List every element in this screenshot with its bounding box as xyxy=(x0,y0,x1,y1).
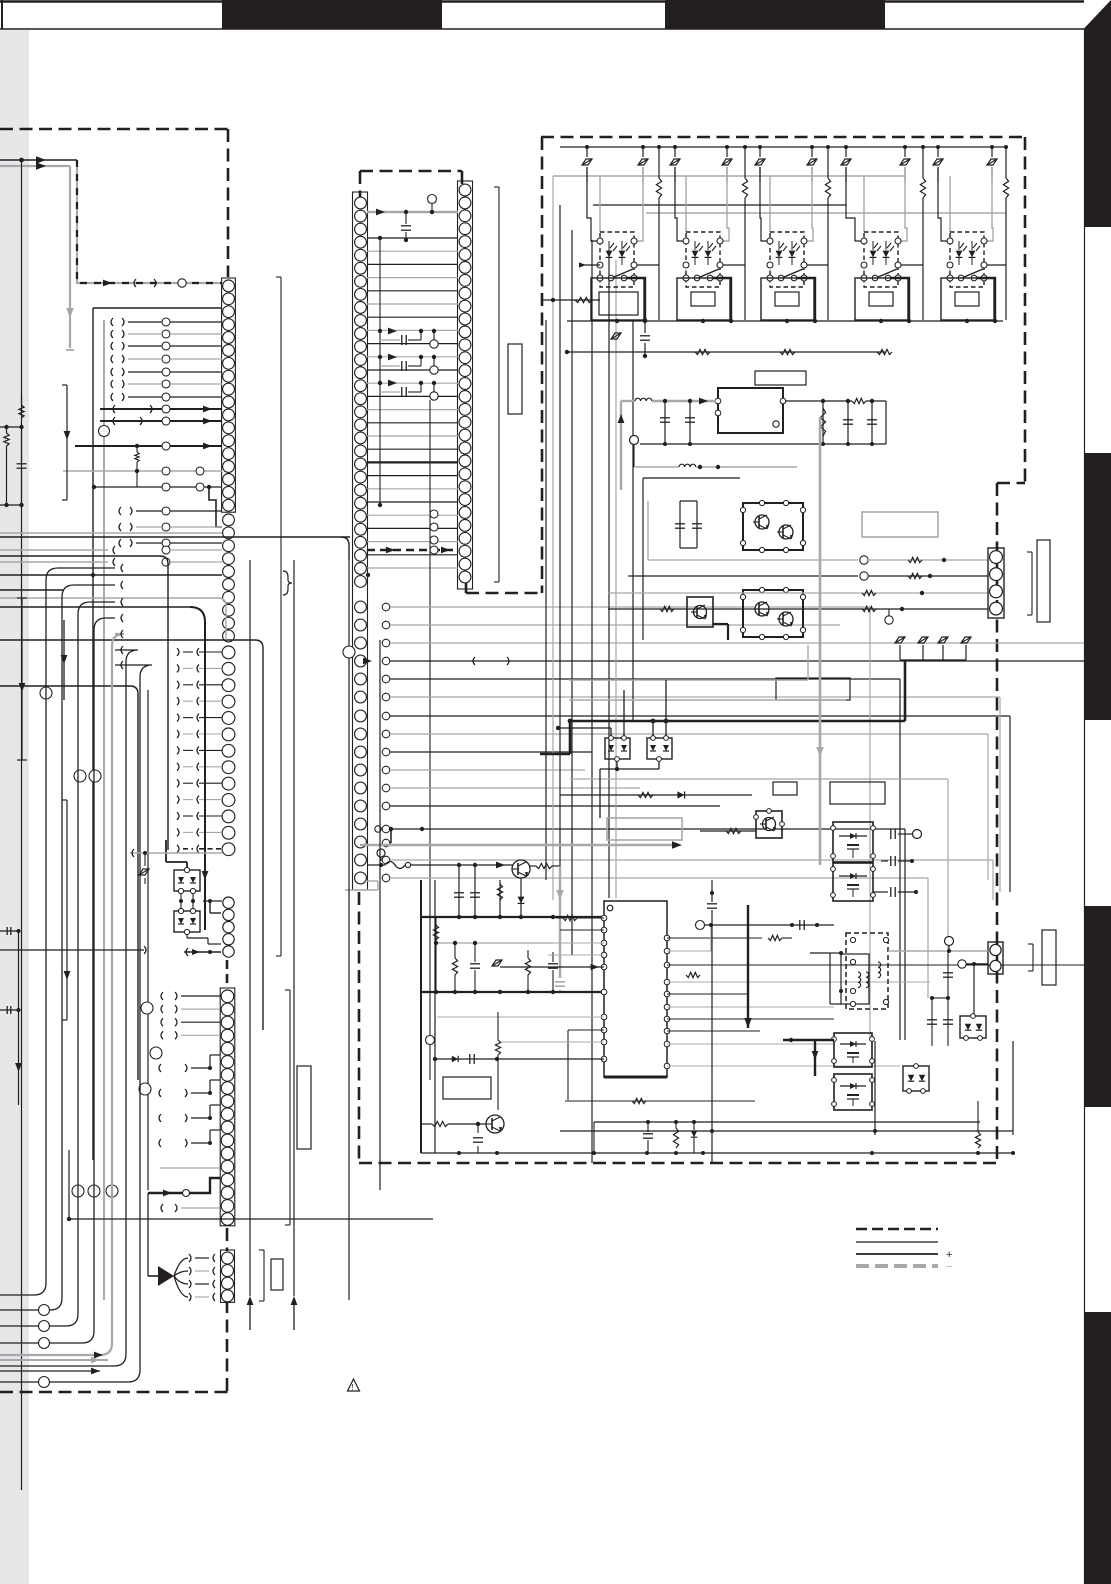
vertical drop to CN205 xyxy=(147,1193,149,1276)
right vertical rails xyxy=(874,1041,876,1135)
connector CN203 xyxy=(223,897,234,908)
label box small xyxy=(773,782,797,795)
fanout to CN205 xyxy=(148,1275,158,1277)
supply caps xyxy=(458,865,460,917)
mid vertical wires xyxy=(147,690,149,1190)
label box gray xyxy=(607,818,682,840)
junction row xyxy=(4,425,8,429)
IC601 right wires xyxy=(667,937,762,939)
jack wire y950 xyxy=(0,949,144,951)
wires at D101 D102 xyxy=(180,893,182,909)
relay switch S202 xyxy=(683,275,689,281)
label box for CN204 xyxy=(297,1066,311,1149)
voltage regulator IC501 xyxy=(718,388,783,433)
photocoupler IC203 xyxy=(770,232,804,287)
right board dashed outline xyxy=(541,136,1025,139)
base resistor xyxy=(700,830,756,832)
ribbon dashed outline xyxy=(360,170,462,173)
connector CN301 column A lower circles xyxy=(355,601,367,613)
transistor block Q601 xyxy=(756,811,782,838)
ribbon branch rows with capacitors xyxy=(388,328,397,335)
caps right column xyxy=(931,998,933,1046)
label box for CN205 xyxy=(271,1259,283,1290)
brace mark mid strip xyxy=(283,571,292,595)
CN204 bottom rows xyxy=(161,1204,163,1212)
bracket left 1 xyxy=(66,385,68,500)
resistors R-top xyxy=(658,147,660,178)
label box model xyxy=(862,512,938,537)
label box CN601 xyxy=(1042,930,1056,985)
label box IC501 xyxy=(755,371,806,385)
ribbon dashed signal wire xyxy=(367,549,458,551)
dashed gray net wire xyxy=(77,160,222,283)
capacitor C202 xyxy=(644,320,646,333)
relay block lower bus xyxy=(567,320,1003,322)
branch wires CN204 xyxy=(159,1064,161,1072)
long verticals xyxy=(420,880,422,1153)
jack rows into CN202 upper xyxy=(119,507,121,515)
wire drops into bottom board xyxy=(869,607,871,1040)
left resistor R201 xyxy=(541,299,600,301)
bottom board dashed outline xyxy=(359,1162,997,1165)
bundle arrows xyxy=(247,1296,254,1305)
top connector pins xyxy=(582,159,592,165)
bracket CN501 xyxy=(1031,552,1033,615)
diode array output wires xyxy=(616,761,618,769)
dashed link CN203-CN204 xyxy=(226,960,229,986)
relay switch S203 xyxy=(767,275,773,281)
bracket for CN205 xyxy=(263,1250,265,1301)
IC601 right pins xyxy=(664,935,670,941)
via circles row 1191 xyxy=(72,1185,84,1197)
svg-text:−: − xyxy=(946,1261,952,1273)
header black block 1 xyxy=(222,0,442,29)
label box bottom left xyxy=(443,1077,491,1099)
gray rail upper xyxy=(553,175,905,177)
header band border xyxy=(0,0,1084,3)
bracket for CN302 xyxy=(498,187,500,582)
arrow rows into CN201 xyxy=(100,408,222,410)
IC601 left wires xyxy=(563,915,577,920)
top bus wire xyxy=(560,146,1008,148)
gray row xyxy=(436,942,553,944)
regulator ground rail xyxy=(640,443,886,445)
wire rows from CN301 to right board xyxy=(382,603,390,611)
photocoupler IC201 xyxy=(600,232,634,287)
thick power bus xyxy=(569,720,905,723)
long vertical wire x21 xyxy=(21,160,23,1490)
relay switch heavy wire 2 xyxy=(713,278,731,320)
output filter xyxy=(822,401,824,444)
vertical bus wires between boards xyxy=(545,320,547,880)
right tab 1 (top wedge) xyxy=(1084,0,1111,227)
capacitors C501 C502 xyxy=(664,401,666,444)
relay group1 coil wire xyxy=(582,264,600,266)
gray riser to cap row xyxy=(710,925,712,951)
photocoupler IC205 xyxy=(950,232,984,287)
connector CN204 (boxed strip) xyxy=(220,988,235,1226)
gray row 779 xyxy=(570,778,948,780)
pin drop wires xyxy=(587,167,599,241)
relay RL204 xyxy=(855,278,908,320)
gray feed down from Q603 xyxy=(559,866,561,978)
page left margin strip xyxy=(0,30,29,1584)
legend gray dashed line xyxy=(856,1264,938,1268)
bracket left 2 xyxy=(66,800,68,1020)
page right edge rule xyxy=(1084,29,1086,1584)
connector pin P202 xyxy=(611,333,621,339)
arrow on vertical x64 xyxy=(63,620,65,700)
thick gray bus to power amp xyxy=(360,844,676,847)
relay RL205 xyxy=(941,278,994,320)
right tab 2 xyxy=(1084,453,1111,720)
ribbon inner vertical wire xyxy=(379,238,381,505)
diode capacitor row xyxy=(435,1058,604,1060)
relay RL203 xyxy=(761,278,814,320)
relay switch heavy wire 4 xyxy=(891,278,909,320)
diode array D603 xyxy=(903,1066,929,1091)
connector CN601 xyxy=(988,942,1003,974)
connector CN201 (left top strip) xyxy=(222,278,236,512)
connector CN205 (4-pin) xyxy=(221,1250,235,1302)
jack rows into CN202 lower xyxy=(177,648,179,656)
signal wire with arrows B xyxy=(0,165,70,167)
cross wire 1219 xyxy=(69,1218,433,1220)
relay switch S205 xyxy=(947,275,953,281)
bracket for CN204 xyxy=(289,990,291,1225)
legend dashed line xyxy=(856,1228,938,1231)
bracket for CN201/202 xyxy=(280,277,282,956)
right tab 3 xyxy=(1084,906,1111,1107)
capacitor C101 xyxy=(21,427,23,462)
diode array D501 xyxy=(605,738,630,759)
wires into CN204 top rows xyxy=(161,992,163,1000)
regulator output wires xyxy=(785,400,852,402)
transistor Q603 xyxy=(512,860,530,878)
wire rows into CN201 xyxy=(111,318,113,326)
bottom rail 2 xyxy=(560,1130,1013,1132)
left wire corners xyxy=(215,532,222,534)
gray pair CN204 xyxy=(160,1167,220,1169)
photocoupler IC204 xyxy=(864,232,898,287)
legend solid thick line xyxy=(856,1253,938,1255)
test point TP602 xyxy=(375,826,381,832)
main supply wire xyxy=(430,864,513,866)
driver section outline wire xyxy=(643,477,740,479)
resistor network to CN501 xyxy=(647,501,649,560)
thick row into CN201 xyxy=(75,445,222,447)
relay switch heavy wire 3 xyxy=(797,278,815,320)
fuse F601 xyxy=(367,864,385,866)
header black block 2 xyxy=(665,0,885,29)
relay switch heavy wire 1 xyxy=(627,278,645,320)
bottom left horizontal wires xyxy=(0,1359,108,1361)
driver block Q502 xyxy=(743,590,803,637)
thick feed xyxy=(747,905,749,1028)
left board dashed outline xyxy=(0,128,228,131)
terminal E501 xyxy=(630,436,639,445)
IC601 main IC xyxy=(604,901,667,1077)
photocoupler IC202 xyxy=(686,232,720,287)
via circle on box wire xyxy=(99,426,110,437)
thick rail 2 xyxy=(421,991,604,993)
ribbon lower circles column xyxy=(430,510,438,518)
terminal circle xyxy=(885,616,893,624)
relay switch S204 xyxy=(861,275,867,281)
thick feed to Q605 xyxy=(783,1039,834,1041)
resistor R102 xyxy=(4,433,9,446)
legend solid thin line xyxy=(856,1241,938,1243)
right tab 4 xyxy=(1084,1312,1111,1584)
via circles mid xyxy=(74,770,86,782)
resistor row right of IC xyxy=(686,972,700,977)
ribbon top gray wire with plug xyxy=(367,211,458,213)
inductor L501 xyxy=(621,400,635,402)
rail wires xyxy=(593,204,846,206)
signal wire with arrows A xyxy=(0,159,77,161)
transformer primary wires xyxy=(830,952,841,954)
resistor right column xyxy=(975,1132,980,1148)
diode array feed wires xyxy=(558,727,611,729)
driver block Q501 xyxy=(743,503,803,550)
resistor R101 xyxy=(21,395,23,405)
capacitor pair C510 xyxy=(679,501,681,548)
transistor block Q503 xyxy=(687,597,713,627)
label box IC601 xyxy=(830,782,885,804)
step wires to CN202 xyxy=(209,487,222,527)
gray row with pin P101 xyxy=(130,852,222,854)
gray bus vertical xyxy=(819,417,822,865)
speaker pins row xyxy=(895,637,905,643)
relay RL202 xyxy=(677,278,730,320)
relay switch heavy wire 5 xyxy=(977,278,995,320)
relay switch S201 xyxy=(597,275,603,281)
cap on vertical 712 xyxy=(707,903,717,905)
label box amp xyxy=(776,678,850,700)
test point TP601 xyxy=(377,849,385,857)
svg-text:+: + xyxy=(946,1249,952,1261)
diode array D101 xyxy=(174,870,200,891)
bracket left mid xyxy=(21,598,23,760)
transformer T601 xyxy=(846,933,888,1009)
bottom components row xyxy=(594,1121,980,1123)
label box right of CN501 xyxy=(1037,540,1050,622)
MOSFET block Q602 xyxy=(833,822,873,862)
connector CN202 upper xyxy=(223,514,235,526)
diode-resistor wire xyxy=(560,794,752,796)
CN203 upper row xyxy=(203,900,222,902)
gray stub below CN301 xyxy=(367,880,378,882)
resistor below thick row xyxy=(135,452,139,462)
ribbon wires xyxy=(367,237,458,239)
left capacitor cluster lower xyxy=(0,930,19,932)
bracket CN601 xyxy=(1032,944,1034,971)
bottom rail xyxy=(421,1152,1013,1154)
diode array D604 xyxy=(960,1016,986,1038)
thick L wire CN204 xyxy=(148,1178,220,1193)
capacitor above transformer xyxy=(780,924,834,926)
diode array D502 xyxy=(647,738,672,759)
ribbon vertical stub wire xyxy=(429,400,431,1080)
MOSFET block Q605 xyxy=(834,1033,872,1067)
relay RL201 xyxy=(591,278,644,320)
capacitor C301 xyxy=(405,212,407,224)
label box for ribbon xyxy=(508,344,522,414)
IC601 left pins xyxy=(601,915,607,921)
connector CN501 xyxy=(988,548,1004,618)
connector CN202 lower xyxy=(222,646,235,659)
left box L1 xyxy=(93,307,222,309)
curved wire bundle bottom left xyxy=(0,568,115,1295)
diode array D102 xyxy=(174,911,200,932)
thick rail 1 xyxy=(421,916,604,918)
left horizontal wires bundle xyxy=(0,532,215,534)
warning triangle xyxy=(348,1379,360,1391)
gray rows into CN201 xyxy=(63,470,222,472)
lower rail with resistors xyxy=(567,351,885,353)
capacitors at Q602 xyxy=(890,829,892,839)
svg-text:!: ! xyxy=(352,1383,354,1392)
connector CN302 column B xyxy=(458,181,473,589)
resistor at pin xyxy=(495,1040,500,1055)
gray return wires xyxy=(569,699,846,701)
transistor Q604 xyxy=(486,1115,504,1133)
MOSFET block Q603a xyxy=(833,863,873,901)
MOSFET block Q606 xyxy=(834,1074,872,1110)
inductor L502 xyxy=(634,466,679,468)
mid components xyxy=(433,925,438,940)
connector CN301 column A xyxy=(353,192,368,890)
